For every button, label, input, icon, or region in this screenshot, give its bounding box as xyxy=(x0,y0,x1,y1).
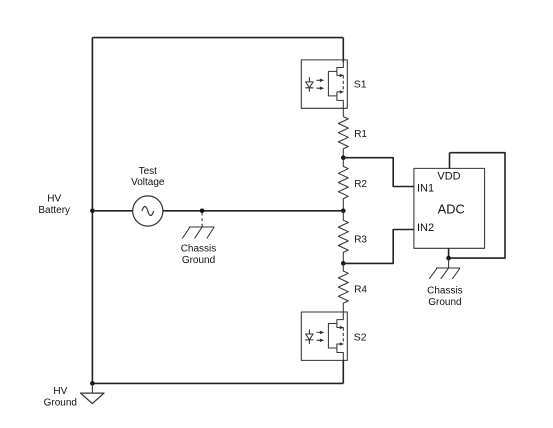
wire: stub to chassis ground (right) xyxy=(448,258,450,268)
ground: chassis ground (right) xyxy=(429,268,460,279)
wire: S2 to bottom bus xyxy=(342,360,344,383)
node: junction R1/R2 xyxy=(341,155,346,160)
wire: junction to ADC IN1 xyxy=(343,158,414,187)
resistor R3 xyxy=(338,211,348,264)
svg-text:R3: R3 xyxy=(354,235,367,246)
wire: VDD supply loop xyxy=(449,153,505,258)
wire: left bus (HV battery rail) xyxy=(91,38,93,384)
ground: HV ground (triangle) xyxy=(81,393,105,404)
wire: test voltage source to mid tap xyxy=(163,210,343,212)
svg-text:IN2: IN2 xyxy=(417,222,434,234)
wire: S1 to R1 xyxy=(342,108,344,116)
node: ADC ground junction xyxy=(446,256,451,261)
svg-text:Ground: Ground xyxy=(44,397,77,408)
resistor R2 xyxy=(338,158,348,211)
svg-text:S2: S2 xyxy=(354,331,367,343)
wire: junction to ADC IN2 xyxy=(343,230,414,264)
switch S2 (photoMOS solid state relay) xyxy=(301,312,347,360)
wire: left bus to test voltage source xyxy=(92,210,132,212)
svg-text:Chassis: Chassis xyxy=(427,286,463,297)
resistor R4 xyxy=(338,263,348,312)
svg-text:HV: HV xyxy=(47,194,61,205)
wire: VDD pin up xyxy=(449,153,451,169)
svg-text:HV: HV xyxy=(53,386,67,397)
svg-text:Test: Test xyxy=(139,166,158,177)
svg-text:R4: R4 xyxy=(354,284,367,295)
svg-text:R1: R1 xyxy=(354,129,367,140)
node: junction R3/R4 xyxy=(341,261,346,266)
node: chassis ground tap on mid wire xyxy=(200,209,205,214)
IC U1: ADC block xyxy=(414,168,485,248)
svg-text:IN1: IN1 xyxy=(417,183,434,195)
wire: stub to HV ground xyxy=(91,383,93,393)
wire: bottom bus xyxy=(92,382,343,384)
svg-text:ADC: ADC xyxy=(438,202,465,217)
resistor R1 xyxy=(338,117,348,158)
svg-text:Battery: Battery xyxy=(38,205,70,216)
source V1: test voltage (AC source) xyxy=(133,196,163,226)
svg-text:Voltage: Voltage xyxy=(131,177,165,188)
node: junction R2/R3 (mid tap) xyxy=(341,209,346,214)
node: HV ground junction xyxy=(90,381,95,386)
svg-text:Ground: Ground xyxy=(428,297,461,308)
svg-text:VDD: VDD xyxy=(437,170,460,182)
node: junction on left bus xyxy=(90,209,95,214)
wire: ADC ground pin xyxy=(448,248,450,258)
ground: chassis ground (left) xyxy=(182,227,214,239)
wire: top bus xyxy=(92,37,343,39)
wire: dashed to chassis ground xyxy=(201,213,203,228)
svg-text:S1: S1 xyxy=(354,79,367,91)
switch S1 (photoMOS solid state relay) xyxy=(301,60,347,108)
svg-text:Chassis: Chassis xyxy=(181,243,217,254)
svg-text:Ground: Ground xyxy=(182,255,215,266)
svg-text:R2: R2 xyxy=(354,179,367,190)
wire: feed into S1 xyxy=(342,38,344,62)
